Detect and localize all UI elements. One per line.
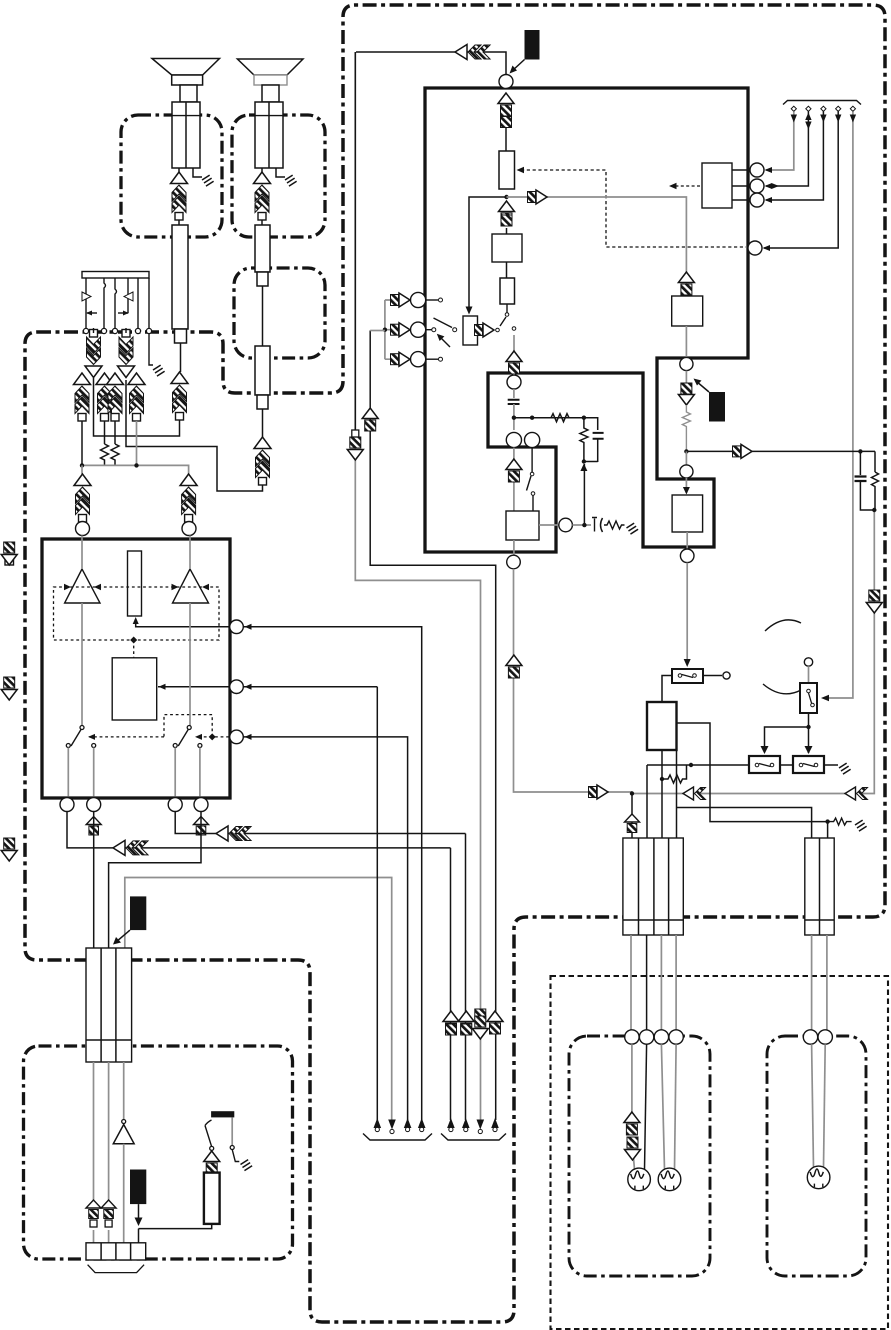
resistor vertical tone — [580, 418, 588, 462]
wire AV loop — [385, 300, 390, 359]
wire ground drop — [149, 333, 153, 365]
ground SP1 — [201, 175, 214, 187]
IC main audio amplifier box — [42, 539, 230, 798]
module box: left speaker unit — [121, 115, 222, 237]
wire — [180, 343, 182, 372]
wire feed from below — [370, 330, 385, 332]
connector CN-headphone 3pol — [86, 948, 132, 1062]
wires 2pol to lamp B — [811, 935, 813, 1030]
connector bar: line output strip — [82, 272, 149, 279]
ground — [626, 523, 639, 535]
selector blade + actuator arrow — [434, 318, 453, 328]
wire audio feed bus — [82, 465, 189, 474]
block: detector — [500, 278, 515, 304]
wire volume control feed — [136, 619, 232, 627]
module box: lamp unit A — [569, 1036, 710, 1276]
module box: right speaker unit — [232, 115, 325, 237]
connector SP2 cable lower — [255, 346, 270, 395]
wire bus g1-1 to amp pin2 — [376, 687, 378, 1120]
wire bus g2-2 — [465, 834, 467, 1121]
op-amp A1 left power amp — [65, 569, 100, 603]
pin: SCL — [750, 179, 764, 193]
signal arrows on speaker lines — [113, 840, 148, 855]
deflection yoke arcs — [765, 620, 801, 631]
junction + level wire to RC — [684, 449, 688, 453]
wire — [808, 666, 810, 683]
wire SP1 return to junction — [94, 378, 180, 436]
switch SW-R speaker/mute — [187, 726, 191, 730]
pin — [680, 549, 694, 563]
block: volume attenuator — [506, 511, 539, 540]
arrowheads at harness end group2 — [447, 1118, 455, 1128]
switch SW-L speaker/mute — [80, 726, 84, 730]
pin: to output stage — [680, 465, 693, 478]
control dashed loop — [54, 587, 220, 640]
wire — [685, 326, 687, 359]
signal arrow stack SP1 lead — [171, 372, 188, 420]
wire — [686, 532, 688, 549]
signal arrow stack SP2 — [254, 172, 271, 220]
wire SP2 ground lead — [276, 168, 285, 177]
amp pins bottom edge — [60, 798, 74, 812]
block: control logic — [112, 658, 157, 720]
wire tuner feed upper segment — [354, 52, 356, 432]
resistor R-L vertical — [101, 444, 109, 465]
wire bus g2-3 gray — [370, 331, 496, 1121]
wire speaker line R — [175, 812, 465, 834]
headphone unit wires — [93, 1062, 95, 1200]
speaker SP1 cone — [152, 59, 220, 76]
wire antenna input top — [356, 52, 506, 75]
boundary feedthrough contacts — [83, 328, 88, 333]
signal arrow stack — [499, 201, 515, 224]
bus wire 2 — [766, 111, 808, 186]
pin: degauss — [804, 658, 812, 666]
arrowheads at harness end group1 — [374, 1118, 382, 1128]
signal arrow stack into amp R — [180, 474, 197, 522]
wire down to pin — [685, 451, 687, 465]
stub + contact — [703, 675, 722, 677]
speaker SP2 stem — [262, 85, 279, 102]
pins on lamp box A — [625, 1030, 639, 1044]
callout: connector ref top — [525, 30, 540, 60]
wire — [506, 228, 508, 234]
wire gray junction drop — [631, 794, 633, 839]
pin: standby — [748, 241, 762, 255]
control bus overbrace — [783, 101, 861, 105]
wire SP1 lead — [178, 168, 180, 172]
wire volume sense up-arrow — [583, 464, 585, 525]
wire bus g1-4 to amp pin1 — [243, 627, 421, 1120]
switch box: relay B — [793, 756, 824, 773]
wire bundle drops — [85, 278, 87, 330]
amp input pin L — [76, 522, 90, 536]
signal arrow cluster on g2 — [443, 1011, 459, 1034]
speaker SP2 magnet — [254, 75, 287, 85]
op-amp A2 right power amp — [173, 569, 209, 603]
wire — [178, 220, 180, 225]
capacitor C-coupling — [508, 400, 520, 404]
pin: RF input — [499, 75, 513, 89]
wire switchbox lower feed — [677, 750, 812, 838]
speaker SP1 magnet — [172, 75, 203, 85]
signal arrow on degauss return line — [866, 590, 882, 613]
speaker SP2 cone — [237, 59, 303, 75]
wire — [261, 220, 263, 225]
pins on inner edge — [506, 432, 521, 447]
signal arrow stack into amp L — [74, 474, 91, 522]
wire bus g2-4 from tuner — [355, 52, 480, 1120]
detect arrow — [204, 1151, 220, 1174]
wire — [513, 404, 515, 430]
resistor feedback — [662, 765, 687, 783]
signal arrow stack SP1 — [171, 172, 188, 220]
wire — [506, 262, 508, 278]
resistor vertical — [682, 405, 690, 451]
bus terminals (diamonds) — [791, 106, 855, 111]
signal arrow stack up — [74, 373, 91, 421]
resistor R-R vertical — [111, 444, 119, 465]
wire block bottom down — [661, 750, 663, 838]
connector SP2 cable upper — [255, 225, 270, 272]
headphone jack bar — [211, 1111, 234, 1117]
wire columns below stacks — [81, 421, 83, 465]
resistor horizontal — [551, 414, 569, 422]
left edge external symbols — [5, 557, 14, 566]
block: audio output stage — [672, 495, 703, 532]
wire + short arrow — [685, 371, 687, 383]
wire mute feed — [158, 686, 232, 688]
jack switch blade — [205, 1120, 212, 1147]
lamp L2 — [658, 1168, 681, 1191]
wire relay to driver block — [662, 676, 672, 703]
switch box: headphone relay — [672, 669, 703, 683]
selector stubs — [426, 299, 438, 301]
wire volume chain — [513, 448, 515, 511]
wires 4pol to lamps — [630, 935, 632, 1030]
switch box: posistor vertical — [800, 683, 817, 713]
wire speaker line L — [67, 812, 451, 848]
resistor — [872, 472, 879, 510]
wire tone network — [514, 418, 598, 430]
pin: AF out — [507, 555, 521, 569]
wire to relay — [686, 563, 688, 664]
callout: wire ref — [130, 1170, 146, 1205]
wire headphone feed L — [93, 812, 95, 949]
wire block stub right down — [677, 723, 828, 822]
bus wire 1 — [766, 111, 794, 170]
wire — [262, 286, 264, 346]
dashed AGC feedback — [521, 170, 746, 247]
control arrow from bus wire 5 — [824, 690, 853, 698]
block: headphone driver — [647, 702, 677, 750]
wire SP2 return routing — [126, 380, 263, 491]
wire IF link gray — [507, 197, 687, 289]
capacitor — [855, 477, 867, 482]
bus wire 3 — [766, 111, 823, 200]
speaker SP1 stem — [180, 85, 197, 102]
wire AF main down — [513, 540, 515, 556]
junction bottom — [584, 461, 598, 463]
arrow marker left — [87, 312, 97, 314]
lamp wires A — [631, 1044, 633, 1113]
block: volume reference — [128, 551, 142, 616]
wire AF to headphone path — [514, 569, 633, 792]
callout: test point — [709, 392, 725, 422]
wire y763 rail — [647, 765, 838, 838]
sound column: arrow into mixer — [678, 272, 694, 295]
signal arrow stack — [498, 93, 514, 116]
lamp L3 — [807, 1166, 830, 1189]
switch box: relay A — [749, 756, 780, 773]
wire headphone feed R — [109, 812, 201, 949]
connector SP1 plug — [172, 102, 200, 168]
external AV selector pins — [411, 292, 426, 307]
capacitor vertical tone — [593, 433, 604, 439]
buffer triangle — [122, 1120, 126, 1124]
resistor to ground — [604, 521, 625, 529]
wire — [572, 524, 591, 526]
lamp L1 — [628, 1168, 651, 1191]
wire + arrow into block — [685, 478, 687, 493]
wire to relays — [808, 713, 810, 753]
connector CN-jack 4pol — [86, 1243, 146, 1260]
module box: lamp unit B — [767, 1036, 866, 1276]
wire — [81, 465, 83, 474]
polarized capacitor — [592, 518, 597, 532]
pin: data — [750, 193, 764, 207]
module box: speaker lead module — [234, 268, 325, 358]
wire switch outputs — [67, 748, 69, 797]
wire bus g2-1 — [450, 848, 452, 1120]
wire SP2 lead — [261, 168, 263, 172]
RC pair top right — [874, 451, 876, 472]
wire — [505, 128, 507, 151]
callout: connector ref — [130, 896, 146, 930]
IC jungle/video processor box outline — [425, 88, 748, 552]
long gray return wire — [632, 510, 874, 794]
wire detect line gray — [125, 878, 392, 1121]
junction — [130, 637, 137, 644]
ground relay rail — [838, 763, 851, 775]
switch: mute select — [531, 448, 533, 472]
harness bracket — [88, 1265, 145, 1273]
wire — [262, 409, 264, 437]
resistor to 2col — [828, 818, 852, 825]
connector CN-lamp 4pol — [623, 838, 683, 935]
block: IF amp — [492, 234, 522, 262]
connector SP1 cable — [172, 225, 188, 329]
dashed arrow from block — [672, 185, 700, 187]
ground bundle — [152, 365, 165, 377]
flag marker left — [82, 292, 91, 301]
wire bus g1-3 to amp pin3 — [243, 737, 407, 1120]
pin: AF test — [559, 518, 573, 532]
arrow marker right — [118, 312, 128, 314]
block: SIF converter — [463, 316, 478, 345]
amp pins right edge — [230, 620, 244, 634]
signal arrow stack down (line out L) — [85, 330, 102, 378]
module box: bottom-left headphone unit — [24, 1046, 293, 1259]
switch: source select — [506, 304, 508, 313]
signal arrow stack down (line out R) — [118, 330, 135, 378]
signal arrow stack SP2 lead — [254, 437, 271, 485]
dashed enclosure: bottom-right lamp assembly — [551, 976, 889, 1329]
pin: det out — [507, 375, 521, 389]
resistor block R-jack — [204, 1173, 220, 1224]
wire op-amp outputs — [81, 603, 83, 726]
pin: SDA — [750, 163, 764, 177]
harness bracket group2 — [441, 1134, 506, 1141]
wire — [513, 335, 515, 375]
jack sleeve to ground — [231, 1117, 233, 1145]
stub to test pin — [539, 524, 559, 526]
dashed switch control net — [89, 715, 229, 737]
signal arrow marks below pins — [86, 817, 101, 836]
flag marker right — [124, 292, 133, 301]
block: audio mixer — [672, 296, 703, 326]
wire branch to SIF — [469, 197, 507, 312]
pin: audio out — [680, 357, 693, 370]
junction — [504, 195, 508, 199]
connector CN-lamp 2pol — [805, 838, 834, 935]
harness bracket group1 — [363, 1134, 432, 1141]
connector SP2 plug — [255, 102, 283, 168]
bus wire 5 — [852, 111, 854, 690]
wire SP1 ground lead — [193, 168, 202, 177]
block stubs to pins — [732, 170, 750, 200]
wire R-jack to connector — [139, 1224, 212, 1243]
block: bus interface — [702, 163, 732, 208]
potentiometer/tuner block — [499, 151, 515, 189]
bus wire 4 — [764, 111, 838, 248]
ground SP2 — [284, 175, 297, 187]
callout: cable ref top-left — [129, 895, 131, 897]
amp input pin R — [182, 522, 196, 536]
